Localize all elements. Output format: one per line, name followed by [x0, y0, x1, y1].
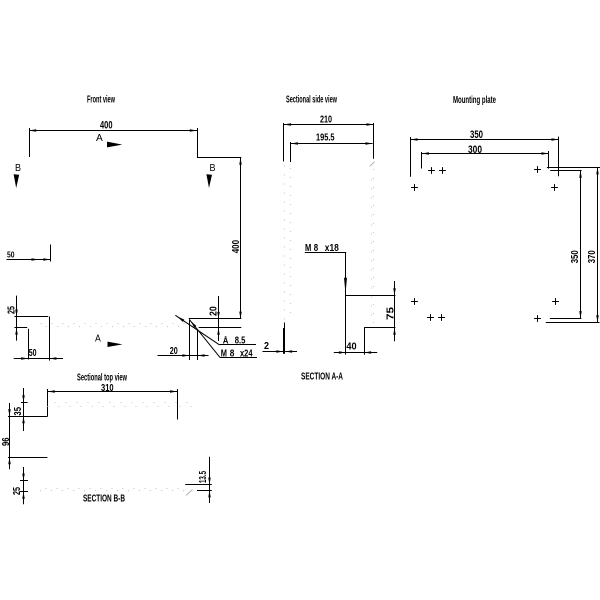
- svg-text:25: 25: [12, 487, 23, 495]
- arrow 96 top: [8, 409, 11, 416]
- arrow 2 right: [285, 350, 292, 353]
- arrow 195.5 right: [365, 142, 372, 145]
- bottom edge y318.9 front view: [189, 318, 242, 320]
- svg-text:195.5: 195.5: [316, 132, 335, 143]
- hidden wall dots right outer: [371, 179, 372, 180]
- arrow 25tv bottom: [22, 492, 25, 499]
- svg-text:A: A: [96, 132, 103, 144]
- dim line 210: [284, 124, 374, 126]
- svg-text:B: B: [15, 162, 21, 174]
- svg-text:x24: x24: [240, 348, 253, 359]
- leader arrowhead M8x18: [344, 278, 347, 294]
- hidden wall dots left outer: [284, 165, 285, 166]
- svg-text:13.5: 13.5: [198, 471, 209, 483]
- edge y327.7 front view: [199, 327, 242, 329]
- svg-text:Sectional top view: Sectional top view: [77, 372, 127, 383]
- arrow 350 left: [410, 138, 417, 141]
- section arrow B left (down solid triangle): [14, 174, 20, 188]
- extension edge y170.5: [550, 170, 581, 172]
- svg-text:50: 50: [7, 249, 15, 259]
- extension line x558.7: [558, 137, 560, 177]
- svg-text:75: 75: [386, 306, 397, 320]
- dim line 25 vertical x16.3: [16, 296, 18, 341]
- extension line x364.1: [364, 328, 366, 355]
- hidden edge dots top view upper row2: [47, 406, 48, 407]
- leader arrowhead M8x24: [190, 321, 196, 328]
- dim line 350 vertical: [580, 171, 582, 319]
- dim line 20 vertical x218.9: [218, 296, 220, 341]
- svg-text:350: 350: [570, 250, 581, 263]
- leader underline hole 8.5: [220, 344, 256, 346]
- leader line + extension M8x18 x345.9: [345, 253, 347, 355]
- section arrow A bottom (right-pointing solid triangle): [108, 342, 123, 347]
- dim line 350: [410, 139, 558, 141]
- svg-text:Mounting plate: Mounting plate: [453, 95, 496, 106]
- dim line 300: [422, 153, 549, 155]
- edge y316.5 bottom left: [14, 316, 48, 318]
- svg-text:310: 310: [101, 383, 114, 394]
- extension line x548.6: [548, 151, 550, 169]
- svg-text:Sectional side view: Sectional side view: [286, 95, 337, 106]
- edge y457.2 top view: [8, 457, 47, 459]
- arrow 310 left: [48, 390, 55, 393]
- hole cross top-left a: [428, 170, 435, 172]
- dim line 2 left segment: [263, 351, 284, 353]
- arrow 210 left: [284, 123, 291, 126]
- dim line 35 vertical x23.7: [23, 388, 25, 431]
- hidden edge dots top view lower row2: [40, 490, 41, 491]
- svg-text:40: 40: [346, 342, 357, 353]
- step edge top right y157.5: [197, 157, 241, 159]
- hole cross bottom-left b: [438, 317, 445, 319]
- extension line x421.7: [421, 152, 423, 169]
- arrow 350v bottom: [579, 311, 582, 318]
- arrow 35 bottom: [22, 416, 25, 423]
- extension edge y167.2: [547, 167, 600, 169]
- svg-text:SECTION A-A: SECTION A-A: [301, 372, 343, 383]
- hidden edge dots top view lower row1: [45, 488, 46, 489]
- hole cross right lower: [552, 301, 559, 303]
- svg-text:8: 8: [230, 348, 235, 359]
- edge y327.6 bottom left: [14, 327, 27, 329]
- arrow 400 left: [29, 129, 36, 132]
- extension line x197.6: [197, 329, 199, 360]
- dim line 400 front view: [29, 130, 197, 132]
- sheet cross-section thick line: [284, 323, 286, 329]
- edge y295.2 side view: [346, 295, 396, 297]
- svg-text:2: 2: [264, 341, 269, 352]
- extension edge y318.3: [550, 318, 582, 320]
- extension line right x197: [197, 128, 199, 158]
- hole cross bottom-left a: [427, 317, 434, 319]
- svg-text:400: 400: [231, 240, 242, 254]
- arrow 25tv top: [22, 474, 25, 481]
- extension edge y322.4: [546, 322, 600, 324]
- svg-text:370: 370: [587, 250, 598, 263]
- svg-text:35: 35: [13, 407, 24, 416]
- arrow 400v bottom: [239, 312, 242, 319]
- hidden edge dots top view upper row1: [54, 402, 55, 403]
- arrow 13.5 top: [208, 478, 211, 485]
- dim line 400 vertical: [240, 158, 242, 319]
- hidden wall dots left inner: [290, 168, 291, 169]
- dim line 370 vertical: [597, 167, 599, 322]
- svg-text:SECTION B-B: SECTION B-B: [83, 493, 125, 504]
- arrow 96 bottom: [8, 457, 11, 464]
- extension line x410.4: [410, 137, 412, 177]
- dim line 40: [334, 352, 377, 354]
- extension line x373.6: [373, 123, 375, 159]
- svg-text:50: 50: [29, 348, 37, 359]
- section arrow B right (down solid triangle): [206, 174, 212, 188]
- hole cross top-right a: [534, 169, 541, 171]
- arrow 75 bottom: [393, 328, 396, 335]
- hidden wall dots right inner: [373, 169, 374, 170]
- arrow 20r bottom: [217, 328, 220, 335]
- arrow 40 right: [364, 351, 371, 354]
- dim line 2 right segment: [285, 351, 297, 353]
- arrow 13.5 bottom: [208, 490, 211, 497]
- dim line 50 bottom left: [14, 358, 63, 360]
- hole cross right upper: [551, 187, 558, 189]
- arrow 310 right: [170, 390, 177, 393]
- hole cross top-left b: [439, 170, 446, 172]
- arrow 2 left: [276, 350, 283, 353]
- dim line 20 bottom: [158, 355, 209, 357]
- dim line 310: [48, 391, 178, 393]
- tick y402.3: [21, 402, 28, 404]
- dim line 50 upper left: [7, 259, 51, 261]
- hole cross left lower: [411, 301, 418, 303]
- arrow 50 inner: [32, 258, 39, 261]
- arrow 400v top: [239, 158, 242, 165]
- edge y490.4 top view: [197, 490, 212, 492]
- extension line x47.6: [47, 389, 49, 416]
- leader underline M8x24: [220, 357, 257, 359]
- svg-text:Å: Å: [223, 336, 229, 346]
- gray corner tick top view: [186, 490, 192, 496]
- svg-text:210: 210: [320, 114, 332, 125]
- arrow 50bl left: [21, 357, 28, 360]
- arrow 50bl right: [49, 357, 56, 360]
- extension line x50.5: [50, 245, 52, 262]
- tick y491.7: [20, 491, 28, 493]
- arrow 50 at edge: [43, 258, 50, 261]
- extension line x283.9: [283, 123, 285, 162]
- arrow 350v top: [579, 171, 582, 178]
- arrow 20b left: [182, 354, 189, 357]
- gray corner tick side view: [370, 162, 375, 167]
- svg-text:B: B: [210, 162, 216, 174]
- svg-text:96: 96: [1, 437, 12, 446]
- arrow 75 top: [393, 288, 396, 295]
- dim line 13.5 vertical x209.6: [209, 457, 211, 503]
- arrow 350 right: [552, 138, 559, 141]
- extension line x49.4: [49, 317, 51, 361]
- arrow 20r top: [217, 312, 220, 319]
- arrow 35 top: [22, 395, 25, 402]
- arrow 400 right: [190, 129, 197, 132]
- arrow 370 top: [596, 167, 599, 174]
- extension line x177.2: [177, 389, 179, 420]
- arrow 300 left: [422, 152, 429, 155]
- arrow 300 right: [541, 152, 548, 155]
- arrow 40 left: [339, 351, 346, 354]
- leader arrowhead hole 8.5: [177, 316, 184, 322]
- edge y327.7 side view: [364, 327, 395, 329]
- extension line x28.2: [28, 329, 30, 360]
- leader line hole 8.5: [175, 315, 219, 345]
- dim line 195.5: [291, 143, 373, 145]
- svg-text:8.5: 8.5: [235, 336, 246, 347]
- leader line thread M8x24: [189, 319, 220, 357]
- hidden edge dots front view row2: [46, 326, 47, 327]
- extension line x189.3: [189, 319, 191, 360]
- leader underline M8x18: [305, 252, 346, 254]
- svg-text:M: M: [221, 348, 227, 359]
- edge y484.6 top view: [185, 484, 212, 486]
- arrow 370 bottom: [596, 315, 599, 322]
- arrow 210 right: [366, 123, 373, 126]
- tick y480.5: [20, 480, 28, 482]
- hole cross left upper: [411, 187, 418, 189]
- hole cross bottom-right a: [534, 318, 541, 320]
- dim line 75 vertical: [394, 281, 396, 341]
- hidden edge dots front view row1: [40, 323, 41, 324]
- extension line left x29: [29, 128, 31, 157]
- extension line x290.8: [290, 142, 292, 162]
- arrow 195.5 left: [291, 142, 298, 145]
- svg-text:Front view: Front view: [87, 95, 115, 106]
- arrow 25 bottom: [15, 328, 18, 335]
- section arrow A top (right-pointing solid triangle): [107, 142, 122, 148]
- edge y416.2 top view: [8, 416, 48, 418]
- arrow 25 top: [15, 310, 18, 317]
- svg-text:A: A: [95, 332, 101, 344]
- svg-text:400: 400: [100, 120, 113, 132]
- dim line 96 vertical x9.9: [9, 403, 11, 469]
- arrow 20b right: [198, 354, 205, 357]
- dim line 25 vertical x23.7: [23, 467, 25, 504]
